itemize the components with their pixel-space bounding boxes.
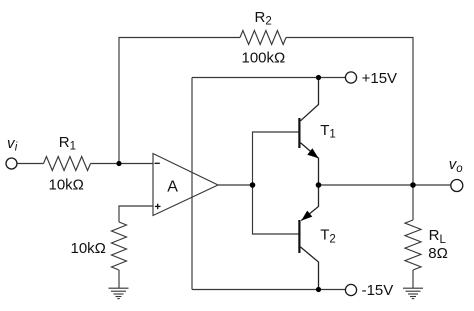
svg-text:R: R xyxy=(59,134,70,151)
svg-text:+15V: +15V xyxy=(362,70,397,87)
svg-text:T: T xyxy=(320,122,329,139)
svg-text:1: 1 xyxy=(329,129,335,141)
svg-text:i: i xyxy=(15,142,18,154)
svg-text:8Ω: 8Ω xyxy=(428,245,448,262)
svg-text:o: o xyxy=(456,163,463,175)
svg-text:100kΩ: 100kΩ xyxy=(242,50,286,67)
svg-text:R: R xyxy=(255,9,266,26)
svg-text:L: L xyxy=(440,234,447,246)
svg-text:2: 2 xyxy=(265,16,271,28)
svg-text:10kΩ: 10kΩ xyxy=(49,176,84,193)
svg-text:1: 1 xyxy=(70,141,76,153)
svg-text:-15V: -15V xyxy=(362,282,394,299)
svg-text:T: T xyxy=(320,227,329,244)
svg-text:2: 2 xyxy=(329,234,335,246)
svg-text:10kΩ: 10kΩ xyxy=(71,240,106,257)
svg-text:R: R xyxy=(429,227,440,244)
svg-text:A: A xyxy=(167,178,178,195)
